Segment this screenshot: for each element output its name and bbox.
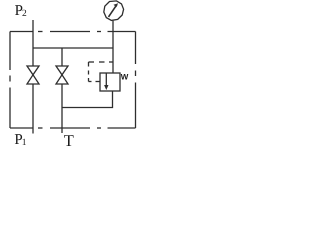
svg-text:1: 1	[22, 138, 27, 148]
wire branch down to valve V2	[61, 48, 63, 66]
wire valve V2 to port T stub	[61, 84, 63, 133]
svg-text:2: 2	[22, 9, 27, 19]
svg-text:W: W	[121, 73, 129, 82]
pressure gauge G	[104, 1, 124, 21]
wire valve V1 to port P1 stub	[32, 84, 34, 134]
wire relief valve outlet to T line	[62, 91, 113, 108]
enclosure left boundary (chain line)	[9, 32, 11, 129]
wire main pressure line (node P2 to relief riser)	[33, 47, 113, 49]
svg-text:T: T	[64, 131, 74, 150]
pilot line (dashed) top run	[89, 61, 114, 63]
enclosure top boundary (chain line)	[10, 31, 136, 33]
relief valve U1 body	[100, 73, 120, 91]
enclosure bottom boundary (chain line)	[10, 127, 136, 129]
enclosure right boundary (chain line)	[135, 32, 137, 129]
shut-off valve V1 (hourglass)	[27, 66, 39, 84]
pilot line (dashed) bottom run into valve	[89, 81, 101, 83]
wire gauge stem down to relief valve	[112, 21, 114, 73]
wire P2 port stub down to valve V1	[32, 20, 34, 66]
label port P2	[15, 3, 27, 19]
shut-off valve V2 (hourglass)	[56, 66, 68, 84]
label port P1	[14, 132, 26, 148]
pilot line (dashed) left run	[88, 62, 90, 82]
